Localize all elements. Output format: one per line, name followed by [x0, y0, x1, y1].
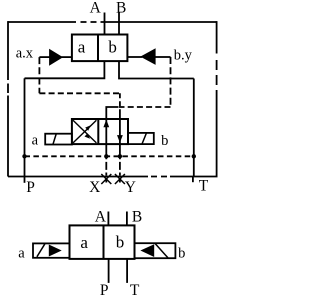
- port X dash-dot line: [105, 156, 107, 182]
- valve V2 right pilot operator box: [128, 133, 154, 144]
- svg-text:Y: Y: [125, 179, 136, 196]
- valve V3 main body (bottom solenoid valve): [70, 225, 135, 259]
- svg-text:T: T: [199, 178, 209, 195]
- junction dot right rail: [192, 154, 196, 158]
- valve V3 B port line: [126, 212, 128, 226]
- junction dot X: [104, 154, 108, 158]
- svg-text:a: a: [80, 233, 88, 252]
- svg-text:A: A: [95, 209, 107, 226]
- svg-text:P: P: [100, 282, 109, 299]
- pilot line a.x dashed vertical: [38, 57, 40, 93]
- svg-text:X: X: [89, 179, 100, 196]
- svg-text:A: A: [90, 0, 102, 16]
- wire left rail down to P: [24, 78, 26, 176]
- valve V2 divider: [97, 119, 99, 144]
- valve V2 up-arrow line (to X pilot): [105, 119, 107, 156]
- valve V1 main body (top box): [72, 35, 128, 62]
- port Y plug cross: [115, 174, 125, 184]
- node B port line (top): [118, 13, 120, 35]
- svg-text:b: b: [178, 246, 185, 262]
- svg-text:b.y: b.y: [174, 48, 193, 64]
- valve V3 divider: [103, 225, 105, 259]
- port Y dash-dot line: [119, 156, 121, 182]
- svg-text:a: a: [78, 37, 86, 56]
- svg-text:a: a: [32, 133, 39, 149]
- wire A down from top box to left rail: [25, 61, 105, 78]
- svg-text:P: P: [26, 179, 35, 196]
- port T stub: [192, 177, 194, 183]
- enclosure top edge: [8, 21, 217, 23]
- node A port line (top): [104, 13, 106, 35]
- junction dot Y: [118, 154, 122, 158]
- svg-text:B: B: [116, 0, 126, 16]
- pilot drain dashed line (horizontal, through X Y): [25, 155, 194, 157]
- pilot line to down-arrow (dashed then solid): [119, 93, 121, 114]
- valve V1 divider: [97, 35, 99, 62]
- port X plug cross: [101, 174, 111, 184]
- junction dot left rail: [22, 154, 26, 158]
- svg-text:b: b: [116, 233, 125, 252]
- port P stub: [24, 177, 26, 183]
- svg-text:b: b: [161, 133, 168, 149]
- pilot arrow b.y (filled triangle): [128, 50, 171, 64]
- pilot line to up-arrow solid corner: [106, 107, 118, 119]
- pilot arrow a.x (filled triangle): [39, 50, 71, 64]
- valve V2 left pilot operator box: [45, 134, 72, 145]
- svg-text:a: a: [18, 246, 25, 262]
- svg-text:a.x: a.x: [16, 46, 34, 62]
- valve V2 main body (middle valve): [72, 119, 128, 144]
- wire right rail down to T: [193, 79, 195, 177]
- svg-text:B: B: [132, 209, 142, 226]
- wire B down from top box to right rail: [119, 61, 194, 78]
- pilot line b.y dashed vertical: [170, 57, 172, 107]
- pilot line a.x dashed horizontal: [39, 92, 120, 94]
- solenoid a operator box: [33, 243, 70, 257]
- valve V2 down-arrow line (to Y pilot): [119, 114, 121, 156]
- valve V3 P port line: [108, 259, 110, 283]
- valve V3 T port line: [126, 259, 128, 283]
- enclosure bottom edge: [8, 176, 218, 178]
- enclosure left edge: [7, 21, 9, 176]
- valve V3 A port line: [107, 212, 109, 226]
- enclosure right edge: [216, 21, 218, 176]
- valve V2 crossed arrows (left cell): [73, 120, 96, 143]
- solenoid b operator box: [135, 243, 176, 258]
- pilot line b.y dashed horizontal: [118, 106, 171, 108]
- svg-text:T: T: [130, 282, 140, 299]
- svg-text:b: b: [108, 37, 117, 56]
